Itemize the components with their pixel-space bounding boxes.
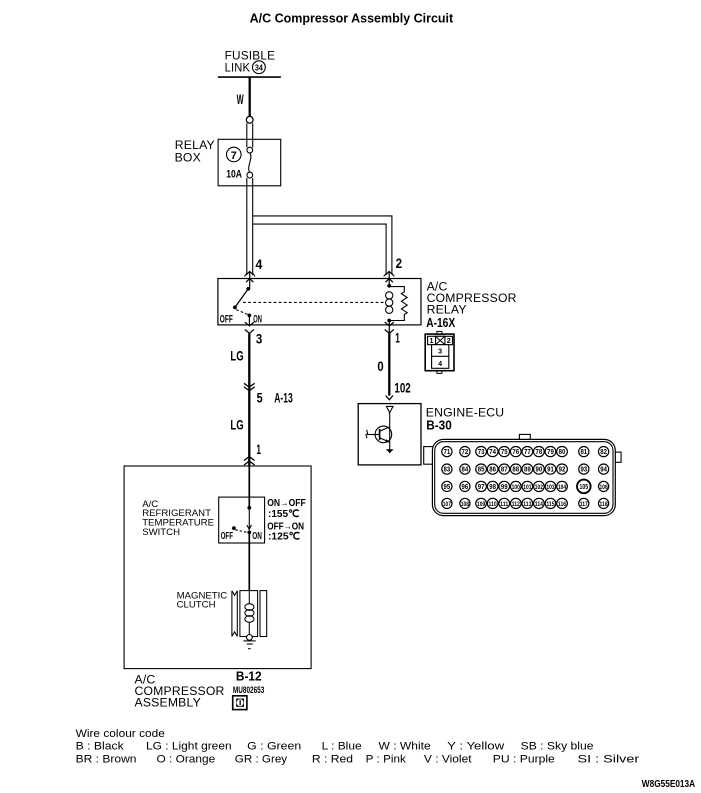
svg-text:B-12: B-12	[236, 670, 262, 684]
svg-text:0: 0	[377, 359, 383, 374]
svg-text:79: 79	[547, 449, 554, 456]
svg-text:111: 111	[500, 501, 509, 508]
svg-text:A/C Compressor Assembly Circui: A/C Compressor Assembly Circuit	[250, 10, 454, 25]
svg-text:10A: 10A	[226, 168, 242, 180]
svg-text:93: 93	[580, 467, 587, 474]
svg-text:102: 102	[394, 380, 410, 395]
svg-text:2: 2	[396, 256, 403, 271]
svg-text:LG : Light green: LG : Light green	[146, 741, 232, 753]
svg-text:SI : Silver: SI : Silver	[578, 754, 640, 766]
svg-text:82: 82	[600, 449, 607, 456]
svg-text:99: 99	[501, 484, 508, 491]
svg-text:78: 78	[536, 449, 543, 456]
svg-text:G : Green: G : Green	[247, 741, 301, 753]
svg-text:118: 118	[600, 501, 609, 508]
svg-text:W: W	[237, 92, 244, 107]
svg-text:R : Red: R : Red	[312, 754, 353, 766]
svg-text:LINK: LINK	[225, 60, 251, 74]
svg-text:88: 88	[512, 467, 519, 474]
svg-text:71: 71	[444, 449, 451, 456]
svg-text:ON→OFF: ON→OFF	[267, 498, 306, 509]
svg-text:80: 80	[559, 449, 566, 456]
svg-text:3: 3	[438, 347, 442, 356]
svg-text:77: 77	[524, 449, 531, 456]
svg-text:BOX: BOX	[175, 151, 201, 165]
svg-text:CLUTCH: CLUTCH	[177, 600, 216, 611]
svg-text:73: 73	[478, 449, 485, 456]
svg-text:90: 90	[536, 467, 543, 474]
svg-text::125℃: :125℃	[268, 531, 300, 542]
svg-text:Y : Yellow: Y : Yellow	[447, 741, 505, 753]
svg-text:81: 81	[580, 449, 587, 456]
svg-text:114: 114	[535, 501, 544, 508]
svg-text:98: 98	[489, 484, 496, 491]
svg-text:PU : Purple: PU : Purple	[493, 754, 555, 766]
svg-text:SB : Sky blue: SB : Sky blue	[521, 741, 594, 753]
svg-text:117: 117	[580, 501, 589, 508]
svg-text::155℃: :155℃	[268, 509, 299, 520]
svg-text:A-16X: A-16X	[426, 316, 456, 330]
svg-text:102: 102	[535, 484, 544, 491]
svg-text:76: 76	[512, 449, 519, 456]
svg-text:95: 95	[444, 484, 451, 491]
svg-text:OFF: OFF	[220, 314, 233, 326]
svg-text:L : Blue: L : Blue	[322, 741, 362, 753]
svg-text:87: 87	[501, 467, 508, 474]
svg-text:84: 84	[462, 467, 469, 474]
svg-text:LG: LG	[230, 348, 243, 363]
svg-text:5: 5	[257, 391, 263, 406]
svg-text:MU802653: MU802653	[233, 685, 264, 695]
svg-text:89: 89	[524, 467, 531, 474]
svg-text:101: 101	[523, 484, 532, 491]
svg-text:2: 2	[447, 336, 451, 345]
svg-text:112: 112	[512, 501, 521, 508]
svg-text:LG: LG	[230, 417, 243, 432]
svg-text:72: 72	[462, 449, 469, 456]
svg-text:92: 92	[559, 467, 566, 474]
svg-text:97: 97	[478, 484, 485, 491]
svg-text:GR : Grey: GR : Grey	[235, 754, 288, 766]
svg-text:34: 34	[255, 62, 263, 72]
svg-text:SWITCH: SWITCH	[142, 527, 180, 538]
svg-text:86: 86	[489, 467, 496, 474]
svg-text:104: 104	[558, 484, 567, 491]
svg-text:83: 83	[444, 467, 451, 474]
svg-text:1: 1	[395, 331, 400, 346]
svg-text:94: 94	[600, 467, 607, 474]
svg-text:108: 108	[461, 501, 470, 508]
svg-text:1: 1	[256, 442, 261, 457]
svg-text:96: 96	[462, 484, 469, 491]
svg-text:W8G55E013A: W8G55E013A	[642, 779, 695, 790]
svg-text:7: 7	[231, 150, 237, 162]
svg-text:75: 75	[501, 449, 508, 456]
svg-text:105: 105	[580, 484, 589, 491]
svg-text:3: 3	[256, 331, 262, 346]
svg-text:85: 85	[478, 467, 485, 474]
svg-text:OFF: OFF	[221, 531, 233, 542]
svg-text:Wire colour code: Wire colour code	[76, 728, 165, 740]
svg-text:103: 103	[546, 484, 555, 491]
svg-text:RELAY: RELAY	[427, 302, 467, 316]
svg-text:110: 110	[489, 501, 498, 508]
svg-text:4: 4	[255, 257, 263, 272]
svg-text:BR : Brown: BR : Brown	[76, 754, 137, 766]
svg-text:116: 116	[558, 501, 567, 508]
svg-text:113: 113	[523, 501, 532, 508]
svg-text:115: 115	[546, 501, 555, 508]
svg-text:V : Violet: V : Violet	[424, 754, 473, 766]
svg-text:109: 109	[477, 501, 486, 508]
svg-text:P : Pink: P : Pink	[366, 754, 407, 766]
svg-text:91: 91	[547, 467, 554, 474]
svg-text:ENGINE-ECU: ENGINE-ECU	[426, 405, 505, 419]
svg-text:100: 100	[512, 484, 521, 491]
svg-text:A-13: A-13	[274, 391, 292, 406]
svg-text:B : Black: B : Black	[76, 741, 124, 753]
svg-text:74: 74	[489, 449, 496, 456]
svg-text:W : White: W : White	[379, 741, 431, 753]
svg-text:ON: ON	[253, 314, 262, 326]
svg-text:O : Orange: O : Orange	[157, 754, 216, 766]
svg-text:ON: ON	[252, 531, 262, 542]
svg-text:B-30: B-30	[426, 419, 452, 433]
svg-text:106: 106	[600, 484, 609, 491]
svg-text:107: 107	[443, 501, 452, 508]
svg-text:ASSEMBLY: ASSEMBLY	[135, 696, 201, 710]
